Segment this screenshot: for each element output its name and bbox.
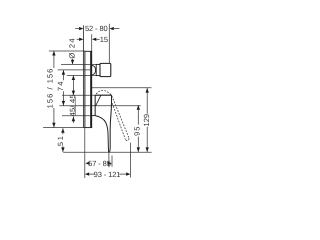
svg-text:93 - 121: 93 - 121 bbox=[94, 170, 121, 179]
svg-text:57 - 85: 57 - 85 bbox=[88, 159, 111, 168]
svg-text:156 / 156: 156 / 156 bbox=[46, 68, 55, 109]
svg-text:129: 129 bbox=[142, 114, 151, 127]
svg-text:Ø 24: Ø 24 bbox=[68, 37, 77, 58]
svg-text:74: 74 bbox=[56, 80, 65, 91]
svg-text:45/ 45: 45/ 45 bbox=[68, 94, 77, 116]
svg-text:95: 95 bbox=[133, 126, 142, 136]
svg-text:52 - 80: 52 - 80 bbox=[85, 24, 108, 33]
svg-text:15: 15 bbox=[100, 35, 108, 44]
svg-text:51: 51 bbox=[56, 134, 65, 146]
